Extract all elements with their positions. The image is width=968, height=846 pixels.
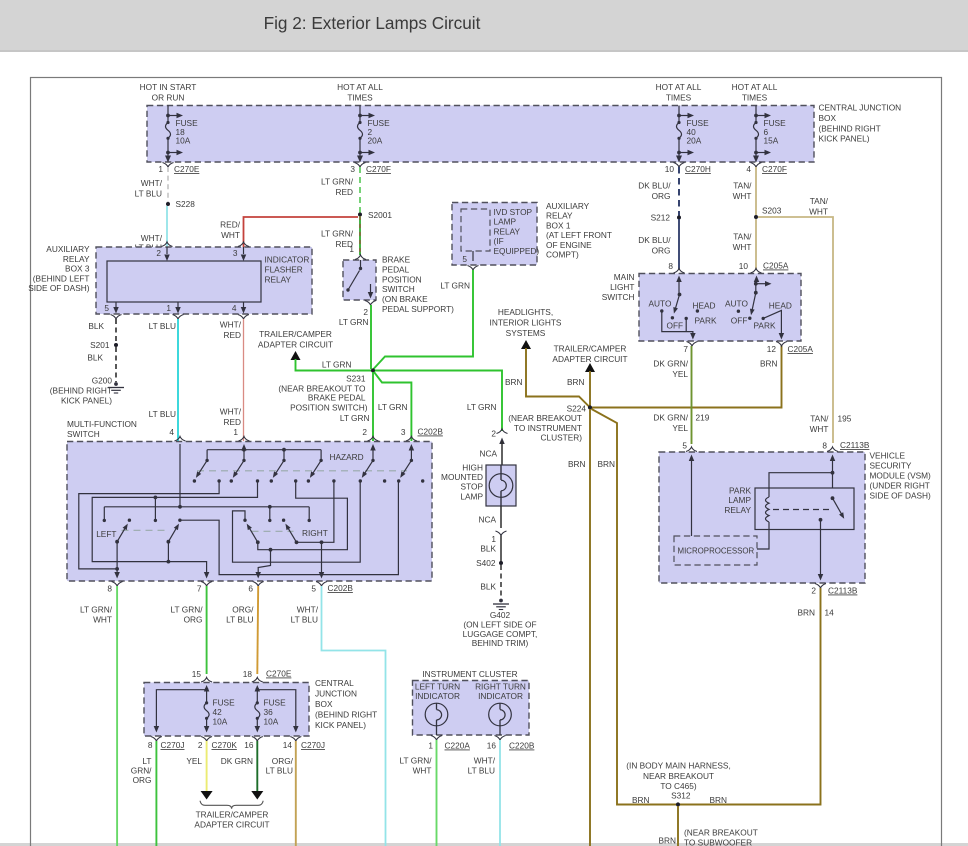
- svg-text:RELAY: RELAY: [63, 254, 90, 264]
- svg-text:5: 5: [311, 584, 316, 594]
- connector C270F pin 3: [350, 163, 391, 175]
- trailer/camper adapter circuit arrow (left): [258, 329, 333, 360]
- svg-text:(BEHIND RIGHT: (BEHIND RIGHT: [315, 710, 377, 720]
- wire TAN/WHT S203 branch to C2113B pin 8: [758, 196, 852, 443]
- wire BRN trailer arrow to S224: [567, 371, 590, 406]
- svg-text:SWITCH: SWITCH: [382, 284, 415, 294]
- microprocessor box: [674, 536, 757, 565]
- svg-text:S203: S203: [762, 206, 782, 216]
- svg-text:AUXILIARY: AUXILIARY: [46, 244, 90, 254]
- svg-text:C270E: C270E: [266, 669, 292, 679]
- splice S212: [651, 213, 681, 223]
- svg-text:(UNDER RIGHT: (UNDER RIGHT: [870, 481, 930, 491]
- svg-text:S224: S224: [567, 404, 587, 414]
- svg-text:14: 14: [825, 608, 835, 618]
- svg-text:HOT IN START: HOT IN START: [140, 82, 197, 92]
- wire DK BLU/ORG fuse40 to S212 (dashed): [638, 167, 679, 217]
- svg-text:RELAY: RELAY: [265, 275, 292, 285]
- svg-text:WHT/: WHT/: [474, 756, 496, 766]
- svg-text:BOX: BOX: [315, 699, 333, 709]
- svg-text:OFF: OFF: [731, 316, 748, 326]
- svg-text:BRAKE: BRAKE: [382, 255, 411, 265]
- svg-text:HOT AT ALL: HOT AT ALL: [337, 82, 383, 92]
- cjb pin 18 connector C270E: [243, 669, 292, 683]
- svg-text:MODULE (VSM): MODULE (VSM): [870, 471, 932, 481]
- wire LT GRN/RED fuse2 to S2001 (dashed): [321, 167, 360, 214]
- svg-text:5: 5: [682, 441, 687, 451]
- svg-text:ADAPTER CIRCUIT: ADAPTER CIRCUIT: [552, 354, 627, 364]
- svg-text:8: 8: [668, 261, 673, 271]
- wire LT GRN arrow to S231: [296, 359, 372, 371]
- svg-text:TRAILER/CAMPER: TRAILER/CAMPER: [196, 810, 269, 820]
- svg-text:LT GRN/: LT GRN/: [400, 756, 433, 766]
- svg-text:6: 6: [248, 584, 253, 594]
- wire LT GRN/WHT mfs pin8 to bottom: [80, 586, 117, 846]
- svg-text:SYSTEMS: SYSTEMS: [506, 328, 546, 338]
- wire ORG/LT BLU mfs pin6 to cjb pin18: [226, 586, 258, 674]
- svg-text:LT: LT: [142, 756, 151, 766]
- svg-text:ORG/: ORG/: [232, 605, 254, 615]
- svg-text:ORG: ORG: [652, 246, 671, 256]
- svg-text:RELAY: RELAY: [494, 226, 521, 236]
- svg-text:JUNCTION: JUNCTION: [315, 689, 357, 699]
- svg-text:OR RUN: OR RUN: [152, 93, 185, 103]
- svg-text:BLK: BLK: [480, 582, 496, 592]
- mfs pin 5 connector C202B: [311, 582, 353, 594]
- svg-text:OF ENGINE: OF ENGINE: [546, 240, 592, 250]
- svg-text:HOT AT ALL: HOT AT ALL: [656, 82, 702, 92]
- svg-text:ORG: ORG: [652, 191, 671, 201]
- central junction box (top): [147, 106, 814, 163]
- wire BRN S312 to subwoofer breakout: [658, 806, 757, 846]
- flasher pin 4 connector: [232, 302, 249, 319]
- wire BRN vsm pin2 to S312: [680, 588, 834, 805]
- svg-text:BOX 1: BOX 1: [546, 220, 571, 230]
- svg-text:MAIN: MAIN: [614, 272, 635, 282]
- svg-text:(IN BODY MAIN HARNESS,: (IN BODY MAIN HARNESS,: [626, 761, 731, 771]
- cjb pin 15 connector: [192, 669, 212, 682]
- svg-text:LT GRN: LT GRN: [467, 402, 497, 412]
- svg-text:1: 1: [491, 534, 496, 544]
- svg-text:15: 15: [192, 669, 202, 679]
- svg-text:DK BLU/: DK BLU/: [638, 235, 671, 245]
- svg-text:ORG: ORG: [184, 614, 203, 624]
- instrument cluster: [413, 669, 530, 735]
- wire BLK S402 to G402 (dashed): [480, 565, 501, 598]
- svg-text:18: 18: [243, 669, 253, 679]
- bottom gray strip: [0, 843, 968, 846]
- svg-text:S2001: S2001: [368, 210, 392, 220]
- svg-text:ADAPTER CIRCUIT: ADAPTER CIRCUIT: [194, 820, 269, 830]
- svg-text:C270J: C270J: [161, 740, 185, 750]
- svg-text:MOUNTED: MOUNTED: [441, 472, 483, 482]
- svg-text:C2113B: C2113B: [840, 440, 870, 450]
- svg-text:8: 8: [822, 441, 827, 451]
- svg-text:WHT: WHT: [733, 191, 752, 201]
- svg-text:LIGHT: LIGHT: [610, 282, 634, 292]
- svg-text:10: 10: [665, 164, 675, 174]
- svg-text:WHT/: WHT/: [297, 605, 319, 615]
- cjb pin 2 connector C270K: [198, 737, 237, 751]
- wire LT GRN/RED S2001 to brake pedal switch pin 1: [321, 216, 360, 255]
- park lamp relay: [724, 471, 854, 581]
- svg-text:RED: RED: [335, 187, 353, 197]
- svg-text:7: 7: [683, 344, 688, 354]
- svg-text:PEDAL SUPPORT): PEDAL SUPPORT): [382, 304, 454, 314]
- splice S312: [626, 761, 731, 807]
- IVD relay pin 5 connector: [462, 251, 478, 270]
- svg-text:BRN: BRN: [598, 459, 616, 469]
- svg-text:CENTRAL: CENTRAL: [315, 678, 354, 688]
- cjb pin 8 connector C270J: [148, 737, 185, 751]
- svg-text:SIDE OF DASH): SIDE OF DASH): [28, 283, 90, 293]
- svg-text:12: 12: [767, 344, 777, 354]
- wire LT GRN S231 to high mounted stop lamp: [375, 371, 502, 432]
- title banner: [0, 0, 968, 52]
- headlights interior lights systems arrow: [490, 307, 562, 349]
- wire ORG/LT BLU cjb pin14 to bottom: [266, 741, 296, 846]
- svg-text:INDICATOR: INDICATOR: [265, 255, 310, 265]
- svg-text:TIMES: TIMES: [347, 93, 373, 103]
- svg-text:BRN: BRN: [658, 836, 676, 846]
- svg-text:FLASHER: FLASHER: [265, 265, 303, 275]
- svg-text:LT GRN: LT GRN: [340, 413, 370, 423]
- svg-text:BLK: BLK: [480, 544, 496, 554]
- svg-text:(ON BRAKE: (ON BRAKE: [382, 294, 428, 304]
- svg-text:VEHICLE: VEHICLE: [870, 451, 906, 461]
- mfs pin7 net: [92, 481, 257, 579]
- svg-text:AUTO: AUTO: [649, 299, 672, 309]
- svg-text:BRN: BRN: [797, 608, 815, 618]
- svg-text:WHT: WHT: [810, 424, 829, 434]
- wire BRN S224 to main light switch pin 12: [592, 345, 782, 408]
- svg-text:2: 2: [491, 429, 496, 439]
- svg-text:LEFT: LEFT: [96, 529, 116, 539]
- ground G200: [50, 376, 124, 406]
- svg-text:GRN/: GRN/: [131, 766, 152, 776]
- svg-text:PARK: PARK: [695, 316, 717, 326]
- svg-text:RED/: RED/: [220, 220, 241, 230]
- svg-text:LT GRN: LT GRN: [339, 317, 369, 327]
- svg-text:INSTRUMENT CLUSTER: INSTRUMENT CLUSTER: [422, 669, 517, 679]
- svg-text:2: 2: [362, 427, 367, 437]
- svg-text:195: 195: [838, 414, 852, 424]
- main light switch: [602, 272, 801, 341]
- mfs pin 7 connector: [197, 582, 212, 594]
- fuse 6 15A: [753, 106, 786, 163]
- svg-text:TAN/: TAN/: [810, 414, 829, 424]
- mfs pin 8 connector: [107, 582, 122, 594]
- trailer/camper adapter circuit arrow (middle): [552, 344, 627, 373]
- cluster pin 16 connector C220B: [487, 736, 535, 751]
- svg-text:NEAR BREAKOUT: NEAR BREAKOUT: [643, 771, 714, 781]
- svg-text:BRN: BRN: [710, 795, 728, 805]
- svg-text:S402: S402: [476, 558, 496, 568]
- wire BLK S201 to G200 (dashed): [87, 347, 116, 382]
- svg-text:S312: S312: [671, 791, 691, 801]
- svg-text:WHT: WHT: [809, 206, 828, 216]
- svg-text:4: 4: [232, 303, 237, 313]
- mfs pin8 net: [79, 481, 219, 579]
- mls pin 12 connector C205A: [767, 342, 814, 355]
- svg-text:7: 7: [197, 584, 202, 594]
- svg-text:10A: 10A: [213, 716, 228, 726]
- svg-text:CLUSTER): CLUSTER): [541, 433, 583, 443]
- svg-text:WHT: WHT: [733, 242, 752, 252]
- wire WHT/LT BLU fuse18 to S228 (dashed): [135, 167, 168, 204]
- svg-text:ORG: ORG: [133, 775, 152, 785]
- mfs pin 2 connector: [362, 427, 378, 441]
- wire RED/WHT S2001 to flasher pin 3: [220, 217, 358, 247]
- splice S402: [476, 558, 503, 568]
- splice S228: [166, 199, 195, 209]
- svg-text:C270H: C270H: [685, 164, 711, 174]
- svg-text:BOX 3: BOX 3: [65, 264, 90, 274]
- flasher pin 2 connector: [156, 242, 172, 261]
- svg-text:5: 5: [462, 254, 467, 264]
- flasher pin 5 connector: [104, 302, 121, 319]
- mfs pin 6 connector: [248, 582, 263, 594]
- connector C270F pin 4: [746, 163, 787, 175]
- svg-text:LT GRN/: LT GRN/: [171, 605, 204, 615]
- trailer/camper adapter circuit brace: [194, 801, 269, 830]
- svg-text:1: 1: [158, 164, 163, 174]
- splice S201: [90, 340, 118, 350]
- fuse 2 20A: [357, 106, 390, 163]
- cjb pin 16 connector: [244, 737, 263, 751]
- svg-text:WHT: WHT: [413, 765, 432, 775]
- svg-text:BRN: BRN: [568, 459, 586, 469]
- svg-text:2: 2: [811, 586, 816, 596]
- svg-text:TRAILER/CAMPER: TRAILER/CAMPER: [554, 344, 627, 354]
- svg-text:16: 16: [244, 740, 254, 750]
- svg-text:HIGH: HIGH: [462, 463, 483, 473]
- wire LT GRN S231 to mfs pin 3: [374, 372, 411, 441]
- svg-text:KICK PANEL): KICK PANEL): [819, 134, 870, 144]
- svg-text:20A: 20A: [368, 136, 383, 146]
- hmsl inline connector pin 1: [478, 506, 506, 544]
- svg-text:KICK PANEL): KICK PANEL): [61, 396, 112, 406]
- wire LT BLU flasher pin1 to multifunction switch pin 4: [149, 319, 178, 441]
- svg-text:C202B: C202B: [328, 583, 354, 593]
- svg-text:TAN/: TAN/: [733, 232, 752, 242]
- mfs pin2 net link: [233, 481, 361, 562]
- svg-text:(AT LEFT FRONT: (AT LEFT FRONT: [546, 230, 612, 240]
- svg-text:S231: S231: [346, 374, 366, 384]
- mls pin 7 connector: [683, 342, 697, 355]
- svg-text:INDICATOR: INDICATOR: [415, 691, 460, 701]
- svg-text:BRN: BRN: [760, 359, 778, 369]
- svg-text:4: 4: [746, 164, 751, 174]
- svg-text:S228: S228: [176, 199, 196, 209]
- svg-text:G200: G200: [92, 376, 113, 386]
- svg-text:SECURITY: SECURITY: [870, 461, 912, 471]
- svg-text:C270K: C270K: [212, 740, 238, 750]
- svg-text:1: 1: [233, 427, 238, 437]
- wire WHT/LT BLU mfs pin5 to bottom: [291, 586, 386, 846]
- svg-text:C270F: C270F: [762, 164, 787, 174]
- fuse 18 10A: [165, 106, 198, 163]
- left turn indicator lamp: [425, 703, 448, 735]
- svg-text:1: 1: [428, 741, 433, 751]
- wire LT GRN bpp pin2 to S231: [339, 305, 371, 369]
- wire BRN S224 down left branch: [568, 409, 590, 846]
- svg-text:RED: RED: [223, 417, 241, 427]
- flasher pin 3 connector: [233, 242, 249, 261]
- bpp switch pin 2 connector: [363, 301, 376, 318]
- svg-text:EQUIPPED): EQUIPPED): [494, 246, 540, 256]
- svg-text:PARK: PARK: [729, 486, 751, 496]
- vsm pin 2 connector C2113B: [811, 584, 857, 596]
- svg-text:WHT: WHT: [221, 230, 240, 240]
- vsm pin 8 connector C2113B: [822, 440, 869, 452]
- cjb internal bus and fuse 36: [255, 685, 299, 733]
- svg-text:STOP: STOP: [461, 482, 484, 492]
- svg-text:20A: 20A: [687, 136, 702, 146]
- svg-text:MULTI-FUNCTION: MULTI-FUNCTION: [67, 419, 137, 429]
- svg-text:LT BLU: LT BLU: [149, 321, 176, 331]
- svg-text:NCA: NCA: [478, 515, 496, 525]
- svg-text:TRAILER/CAMPER: TRAILER/CAMPER: [259, 329, 332, 339]
- wire LT GRN/ORG cjb pin8 to bottom: [131, 741, 157, 846]
- svg-text:WHT/: WHT/: [141, 178, 163, 188]
- right turn indicator lamp: [489, 703, 512, 735]
- svg-text:BEHIND TRIM): BEHIND TRIM): [472, 638, 529, 648]
- svg-text:PARK: PARK: [754, 321, 776, 331]
- connector C270H pin 10: [665, 163, 711, 175]
- wire LT GRN/ORG mfs pin7 to cjb pin15: [171, 586, 207, 674]
- svg-text:SWITCH: SWITCH: [67, 429, 100, 439]
- svg-text:1: 1: [349, 244, 354, 254]
- svg-text:RIGHT: RIGHT: [302, 528, 328, 538]
- svg-text:C220A: C220A: [445, 741, 471, 751]
- svg-text:LAMP: LAMP: [728, 495, 751, 505]
- svg-text:COMPT): COMPT): [546, 250, 579, 260]
- svg-text:WHT/: WHT/: [141, 233, 163, 243]
- wire WHT/LT BLU S228 to aux relay pin 2: [135, 206, 167, 253]
- svg-text:(BEHIND RIGHT: (BEHIND RIGHT: [50, 386, 112, 396]
- wire LT GRN ivd relay to S231 net: [373, 270, 473, 370]
- wire TAN/WHT fuse6 to S203: [733, 167, 756, 215]
- svg-text:INDICATOR: INDICATOR: [478, 691, 523, 701]
- mfs pin 4 connector: [169, 427, 185, 441]
- splice S203: [754, 206, 782, 220]
- mfs pin5 net: [297, 481, 334, 579]
- svg-text:HEAD: HEAD: [693, 301, 716, 311]
- svg-text:(IF: (IF: [494, 236, 504, 246]
- svg-text:(NEAR BREAKOUT: (NEAR BREAKOUT: [684, 828, 758, 838]
- svg-text:BOX: BOX: [819, 113, 837, 123]
- svg-text:BRN: BRN: [632, 795, 650, 805]
- hmsl inline connector pin 2: [491, 429, 507, 439]
- cjb internal bus and fuse 42: [154, 685, 235, 733]
- svg-text:BLK: BLK: [87, 353, 103, 363]
- wire DK BLU/ORG S212 to main light switch pin 8: [638, 219, 679, 269]
- svg-text:3: 3: [233, 248, 238, 258]
- svg-text:POSITION SWITCH): POSITION SWITCH): [290, 403, 368, 413]
- vsm pin 5 connector: [682, 441, 697, 452]
- svg-text:DK GRN: DK GRN: [221, 756, 253, 766]
- svg-text:C270J: C270J: [301, 740, 325, 750]
- svg-text:TO INSTRUMENT: TO INSTRUMENT: [514, 423, 582, 433]
- svg-text:YEL: YEL: [672, 423, 688, 433]
- svg-text:PEDAL: PEDAL: [382, 264, 410, 274]
- svg-text:LAMP: LAMP: [494, 217, 517, 227]
- svg-text:1: 1: [166, 303, 171, 313]
- svg-text:TO SUBWOOFER: TO SUBWOOFER: [684, 838, 752, 846]
- svg-text:219: 219: [696, 413, 710, 423]
- svg-text:WHT/: WHT/: [220, 320, 242, 330]
- svg-text:LT BLU: LT BLU: [149, 409, 176, 419]
- svg-text:DK GRN/: DK GRN/: [653, 413, 688, 423]
- vsm pin8 wire to relay contact: [830, 455, 836, 498]
- svg-text:C220B: C220B: [509, 741, 535, 751]
- svg-text:LT BLU: LT BLU: [468, 765, 495, 775]
- svg-text:POSITION: POSITION: [382, 274, 422, 284]
- svg-text:CENTRAL JUNCTION: CENTRAL JUNCTION: [819, 103, 902, 113]
- svg-text:2: 2: [156, 248, 161, 258]
- svg-text:INTERIOR LIGHTS: INTERIOR LIGHTS: [490, 318, 562, 328]
- wire TAN/WHT S203 to main light switch pin 10: [733, 219, 756, 269]
- svg-text:DK GRN/: DK GRN/: [653, 359, 688, 369]
- vsm pin5 wire to microprocessor: [689, 455, 695, 537]
- svg-text:LT BLU: LT BLU: [226, 614, 253, 624]
- splice S2001: [358, 210, 392, 220]
- svg-text:YEL: YEL: [672, 369, 688, 379]
- mfs pin6 net: [255, 481, 347, 579]
- svg-text:BRN: BRN: [505, 377, 523, 387]
- mls pin 10 connector C205A: [739, 261, 789, 274]
- cjb pin 14 connector C270J: [283, 737, 325, 751]
- mfs left turn switch pair: [96, 519, 181, 544]
- IVD stop lamp relay (aux relay box 1): [452, 201, 612, 265]
- cluster pin 1 connector C220A: [428, 736, 470, 751]
- brake pedal position switch: [343, 255, 454, 315]
- connector C270E pin 1: [158, 163, 199, 175]
- svg-text:14: 14: [283, 740, 293, 750]
- svg-text:SWITCH: SWITCH: [602, 292, 635, 302]
- svg-text:S212: S212: [651, 213, 671, 223]
- svg-text:16: 16: [487, 741, 497, 751]
- svg-text:LT GRN: LT GRN: [378, 402, 408, 412]
- svg-text:15A: 15A: [764, 136, 779, 146]
- svg-text:8: 8: [148, 740, 153, 750]
- svg-text:LT GRN: LT GRN: [322, 360, 352, 370]
- wire YEL cjb pin2 to trailer adapter: [186, 741, 212, 800]
- mfs pin 3 connector C202B: [401, 427, 443, 442]
- mls right switch (auto/off/park/head): [725, 276, 792, 340]
- wire NCA to high mounted stop lamp: [479, 438, 504, 466]
- vehicle security module box: [659, 451, 931, 584]
- wire WHT/LT BLU cluster pin16 to bottom: [468, 740, 500, 846]
- wire LT GRN S231 to mfs pin 2: [340, 372, 373, 441]
- svg-text:LT GRN/: LT GRN/: [80, 605, 113, 615]
- svg-text:3: 3: [401, 427, 406, 437]
- wire DK GRN/YEL mls pin7 to vsm pin5: [653, 346, 709, 444]
- svg-text:IVD STOP: IVD STOP: [494, 207, 533, 217]
- svg-text:AUXILIARY: AUXILIARY: [546, 201, 590, 211]
- mfs pin 1 connector: [233, 427, 249, 441]
- flasher pin 1 connector: [166, 302, 183, 319]
- svg-text:HAZARD: HAZARD: [330, 452, 364, 462]
- multi-function switch box: [67, 419, 432, 581]
- svg-text:RED: RED: [223, 330, 241, 340]
- svg-text:LT GRN/: LT GRN/: [321, 229, 354, 239]
- svg-text:WHT: WHT: [93, 614, 112, 624]
- svg-text:YEL: YEL: [186, 756, 202, 766]
- svg-text:TIMES: TIMES: [666, 93, 692, 103]
- svg-text:10A: 10A: [176, 136, 191, 146]
